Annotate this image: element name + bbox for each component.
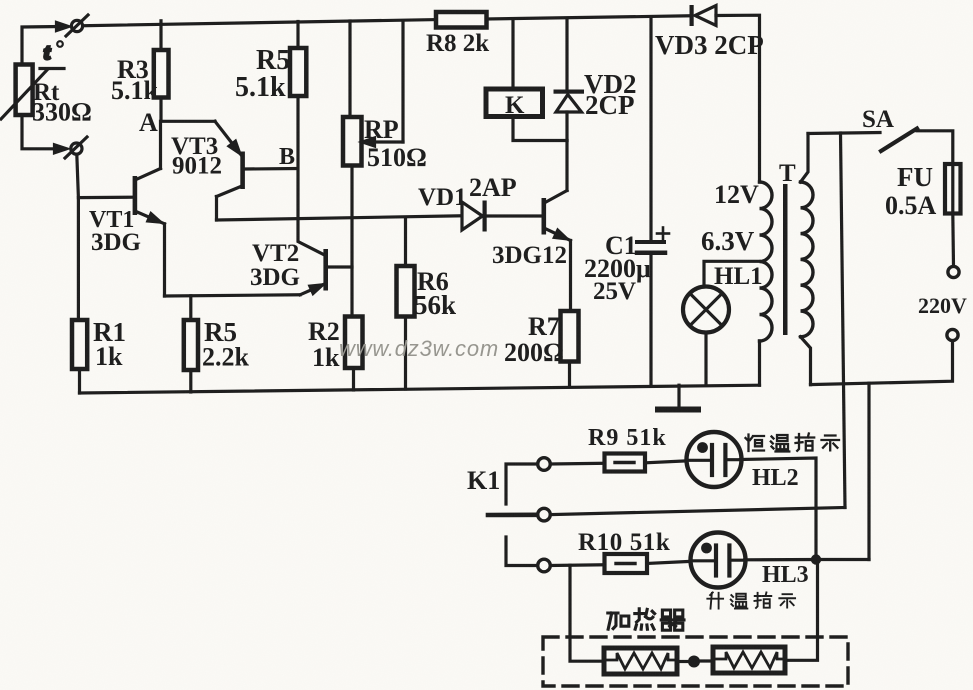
transistor VT3 — [215, 121, 298, 220]
wire: HL3 to junction — [745, 558, 816, 561]
scan noise overlay — [0, 0, 1, 1]
wire: upper contact bracket — [506, 464, 538, 504]
wire: R5b to node B to VT2 — [298, 96, 325, 255]
wire: upper contact to R9 — [550, 462, 604, 466]
wire: SA feed — [808, 133, 880, 134]
wire: plug down left column to R1 — [77, 154, 79, 320]
wire: R9 to HL2 — [645, 461, 687, 463]
junction dot (heater) — [677, 656, 713, 668]
resistor R2 — [345, 317, 363, 369]
fuse FU — [945, 164, 961, 214]
label 加热器 — [608, 609, 684, 630]
diode VD2 with riser — [554, 19, 585, 141]
dashed enclosure heater — [543, 637, 848, 686]
transformer T primary winding — [801, 134, 814, 385]
heater element 1 — [604, 648, 677, 674]
plug connector X2 (bottom) — [65, 137, 87, 158]
wire: RP bottom through to R2 — [350, 166, 353, 317]
switch K1 upper contact — [538, 458, 551, 471]
wire: fuse to terminal — [951, 214, 955, 267]
resistor R3 with riser — [154, 21, 169, 98]
terminal 220V top — [948, 266, 959, 277]
wire: lower contact to R10 — [550, 563, 604, 567]
wire: heater to junction column — [785, 565, 818, 661]
wire: R1 to bottom rail — [78, 369, 81, 393]
bottom common rail — [80, 385, 760, 393]
wire: junction to mains branch — [821, 558, 869, 561]
plus mark C1 — [657, 228, 669, 240]
switch K1 lower contact — [538, 559, 551, 572]
label t° — [44, 40, 63, 64]
wire: heater branch from K1 lower wire — [570, 565, 604, 661]
switch K1 pole contact — [538, 508, 551, 521]
transformer core — [783, 184, 788, 335]
wire: R7 to bottom rail — [568, 362, 571, 387]
lamp HL2 (neon) — [687, 432, 742, 487]
potentiometer RP with risers — [343, 21, 403, 166]
relay coil K with riser — [486, 19, 567, 141]
wire: HL2 to junction column — [741, 458, 817, 555]
wire: top-left corner with arrow to plug — [22, 23, 69, 66]
resistor R6 with riser — [397, 218, 415, 390]
resistor R7 — [561, 311, 579, 362]
wire: terminal to primary bottom — [811, 341, 953, 385]
ground symbol — [658, 385, 698, 409]
wire: R10 to HL3 — [647, 561, 691, 563]
switch K1 pole lead — [488, 512, 537, 517]
wire: mains branch right (to HL3 node) — [867, 383, 870, 559]
resistor R9 — [605, 454, 646, 472]
thermistor Rt — [1, 65, 64, 120]
wire: plug to R8 (top supply rail) — [83, 20, 436, 26]
plug connector X1 (top) — [66, 15, 88, 36]
wire: SA long branch down to K1 pole — [841, 133, 846, 508]
terminal 220V bottom — [947, 329, 958, 340]
wire: emitter bus VT1-VT2 — [165, 295, 301, 296]
wire: K1 pole to SA branch — [550, 508, 845, 515]
wire: VD3 to transformer secondary — [716, 15, 760, 182]
lamp HL1 — [683, 261, 760, 385]
node A: wire R3 to VT3 emitter — [161, 98, 215, 122]
resistor R1 — [72, 320, 87, 369]
wire: emitter bus to R5 — [189, 296, 192, 320]
wire: Rt bottom with arrow to plug — [22, 115, 67, 153]
transformer T secondary winding — [760, 182, 773, 341]
wire: secondary bottom to rail — [758, 341, 761, 385]
label 升温指示 — [707, 592, 795, 608]
resistor R8 (horizontal, in rail) — [436, 12, 487, 28]
lamp HL3 (neon) — [691, 533, 746, 588]
transistor VT2 — [300, 249, 352, 295]
transistor VT4 3DG12 — [542, 141, 571, 312]
transistor VT1 — [133, 121, 165, 296]
wire: R2 to bottom rail — [352, 368, 355, 390]
diode VD3 (in rail) — [690, 5, 717, 26]
switch SA blade — [881, 129, 917, 152]
wire: R5 to bottom rail — [189, 370, 192, 392]
capacitor C1 — [637, 17, 665, 386]
wire: VT3 collector rail to VD1 — [217, 216, 463, 220]
resistor R5b (5.1k) with riser — [290, 22, 306, 97]
wire: VT1 base — [78, 196, 132, 200]
diode VD1 — [462, 201, 542, 232]
wire: SA to fuse — [917, 131, 953, 164]
wire: rail right of R8 — [487, 16, 691, 19]
junction dot — [811, 554, 821, 564]
resistor R10 — [605, 554, 648, 573]
wire: lower contact bracket — [506, 537, 538, 566]
resistor R5 (2.2k) — [184, 320, 198, 370]
label 恒温指示 — [746, 434, 840, 452]
heater element 2 — [713, 647, 785, 673]
